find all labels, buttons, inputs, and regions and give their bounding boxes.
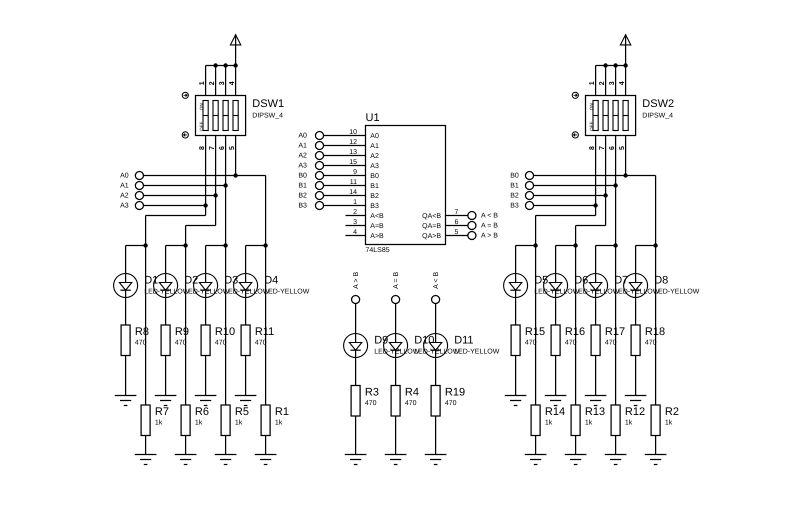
value 470 (R9) [175,340,187,347]
wire [125,246,127,274]
wire U1 pin 15 [324,165,366,167]
wire net B2 jog [576,225,606,227]
resistor R10 [201,325,210,356]
svg-text:R9: R9 [175,326,189,338]
pin number 5 (U1) [455,229,459,236]
label D2 [184,275,198,287]
value 470 (R3) [365,400,377,407]
wire [395,303,397,333]
svg-text:D4: D4 [264,275,278,287]
value LED-YELLOW (D7) [614,288,660,295]
svg-text:R4: R4 [405,387,419,399]
svg-text:QA>B: QA>B [422,233,441,240]
wire [515,246,517,274]
value 470 (R8) [135,340,147,347]
label R1 [275,406,289,418]
wire [635,246,637,274]
label D10 [414,335,434,347]
label R11 [255,326,274,338]
terminal A0 (U1 input) [298,131,323,139]
ground [135,455,157,465]
svg-text:5: 5 [619,146,626,150]
label R3 [365,387,379,399]
svg-text:ON: ON [589,103,594,110]
LED D7 [584,274,608,298]
terminal A3 (U1 input) [298,161,323,169]
wire [165,356,167,396]
wire [515,298,517,326]
svg-text:2: 2 [209,81,216,85]
ground [505,396,527,406]
wire net A3 drop [145,216,147,246]
label D9 [374,335,388,347]
wire [435,416,437,455]
terminal B0 [510,171,533,179]
svg-text:A < B: A < B [481,213,498,220]
svg-text:3: 3 [609,81,616,85]
wire net A3 jog [146,215,206,217]
svg-text:LED-YELLOW: LED-YELLOW [654,288,700,295]
wire [205,298,207,326]
value LED-YELLOW (D1) [144,288,190,295]
ground [345,455,367,465]
terminal A < B (output) [468,211,498,219]
pin name QA>B (U1) [422,233,441,240]
terminal A1 [120,181,143,189]
value LED-YELLOW (D11) [454,348,500,355]
svg-text:470: 470 [445,400,457,407]
DIP switch DSW1 [196,96,246,136]
svg-text:6: 6 [609,146,616,150]
wire [206,245,226,247]
svg-text:A0: A0 [120,173,129,180]
ground [255,455,277,465]
svg-text:B2: B2 [298,193,307,200]
terminal B3 [510,201,533,209]
svg-text:470: 470 [645,340,657,347]
pin number 2 (DSW1) [209,81,216,85]
wire U1 pin 12 [324,145,366,147]
svg-text:B1: B1 [510,183,519,190]
value 1k (R12) [625,419,633,427]
wire net A0 [143,175,265,177]
svg-text:8: 8 [199,146,206,150]
pin name A0 (U1) [370,133,379,140]
junction [263,243,267,247]
ground [565,455,587,465]
pin name A>B (U1) [370,233,384,240]
wire U1 pin 3 stub [346,225,366,227]
svg-text:1k: 1k [275,419,283,427]
svg-text:QA=B: QA=B [422,223,441,230]
power terminal VCC (DSW2) [620,34,630,65]
label D4 [264,275,278,287]
wire [206,65,236,67]
svg-text:B0: B0 [370,173,379,180]
pin number 2 (U1) [353,209,357,216]
pin name A3 (U1) [370,163,379,170]
junction [213,63,217,67]
label R12 [625,406,645,418]
resistor R11 [241,325,250,356]
value 470 (R19) [445,400,457,407]
label D5 [534,275,548,287]
wire [595,298,597,326]
pin name B1 (U1) [370,183,379,190]
ground [155,396,177,406]
svg-text:R1: R1 [275,406,289,418]
svg-text:A1: A1 [120,183,129,190]
wire [575,246,577,406]
wire [625,66,627,96]
svg-text:470: 470 [405,400,417,407]
IC U1 body [366,126,446,245]
wire [125,298,127,326]
svg-text:8: 8 [589,146,596,150]
wire U1 pin 10 [324,135,366,137]
wire [125,356,127,396]
svg-text:B3: B3 [370,203,379,210]
svg-text:A3: A3 [298,163,307,170]
wire DIP pin 7 column [215,136,217,226]
svg-text:D7: D7 [614,275,628,287]
pin number 8 (DSW2) [589,146,596,150]
wire [205,66,207,96]
wire [265,436,267,455]
terminal A > B (output) [468,231,498,239]
svg-text:1k: 1k [665,419,673,427]
wire net B3 drop [535,216,537,246]
ground [425,455,447,465]
terminal B3 (U1 input) [298,201,323,209]
pin name A1 (U1) [370,143,379,150]
ground [385,455,407,465]
pin number 13 (U1) [349,149,357,156]
terminal A2 [120,191,143,199]
svg-text:ON: ON [199,103,204,110]
wire [516,245,536,247]
ground [525,455,547,465]
svg-text:14: 14 [349,189,357,196]
terminal B2 (U1 input) [298,191,323,199]
value LED-YELLOW (D5) [534,288,580,295]
terminal A0 [120,171,143,179]
svg-text:A2: A2 [370,153,379,160]
svg-text:A > B: A > B [353,272,360,289]
svg-text:B1: B1 [370,183,379,190]
svg-text:D6: D6 [574,275,588,287]
junction B2 [603,193,607,197]
wire net A2 drop [185,226,187,246]
wire [395,358,397,386]
svg-text:A < B: A < B [433,272,440,289]
wire net A0 drop [265,176,267,246]
svg-text:A = B: A = B [481,223,498,230]
wire [435,358,437,386]
wire [575,436,577,455]
LED D6 [544,274,568,298]
wire [245,356,247,396]
value 1k (R6) [195,419,203,427]
svg-text:1k: 1k [155,419,163,427]
value 1k (R2) [665,419,673,427]
value 1k (R7) [155,419,163,427]
value 1k (R14) [545,419,553,427]
svg-text:1k: 1k [585,419,593,427]
svg-text:470: 470 [605,340,617,347]
wire U1 pin 11 [324,185,366,187]
svg-text:7: 7 [455,209,459,216]
svg-text:15: 15 [349,159,357,166]
svg-text:A0: A0 [298,133,307,140]
ground [605,455,627,465]
svg-text:3: 3 [353,219,357,226]
label R10 [215,326,235,338]
wire [165,298,167,326]
junction [623,63,627,67]
ground [645,455,667,465]
value 1k (R1) [275,419,283,427]
junction [613,243,617,247]
wire [126,245,146,247]
pin name QA=B (U1) [422,223,441,230]
pin number 4 (DSW1) [229,81,236,85]
label R15 [525,326,545,338]
pin number 8 (DSW1) [199,146,206,150]
svg-text:470: 470 [175,340,187,347]
label R14 [545,406,565,418]
wire [245,298,247,326]
wire [265,246,267,406]
svg-text:A > B: A > B [481,233,498,240]
resistor R3 [351,386,360,417]
svg-text:5: 5 [455,229,459,236]
pin number 3 (DSW1) [219,81,226,85]
svg-text:1k: 1k [235,419,243,427]
label R19 [445,387,465,399]
svg-text:74LS85: 74LS85 [366,247,390,254]
svg-text:DIPSW_4: DIPSW_4 [642,113,673,120]
svg-text:12: 12 [349,139,357,146]
junction A3 [203,203,207,207]
LED D11 [424,334,448,358]
svg-text:U1: U1 [366,112,380,124]
svg-text:4: 4 [353,229,357,236]
LED D2 [154,274,178,298]
terminal A3 [120,201,143,209]
wire [215,66,217,96]
wire [636,245,656,247]
svg-text:4: 4 [229,81,236,85]
value 470 (R15) [525,340,537,347]
wire net B2 [534,195,606,197]
terminal A1 (U1 input) [298,141,323,149]
wire net A3 [143,205,205,207]
junction B0 [623,173,627,177]
pin number 1 (DSW2) [589,81,596,85]
wire DIP pin 7 column [605,136,607,226]
wire [595,66,597,96]
wire DIP pin 6 column [225,136,227,246]
junction [653,243,657,247]
resistor R14 [531,405,540,436]
svg-text:LED-YELLOW: LED-YELLOW [264,288,310,295]
wire net B0 [534,175,656,177]
wire [605,66,607,96]
svg-text:2: 2 [353,209,357,216]
wire U1 pin 5 [446,235,469,237]
svg-text:A1: A1 [298,143,307,150]
value 1k (R5) [235,419,243,427]
wire [615,246,617,406]
pin number 9 (U1) [353,169,357,176]
svg-text:D11: D11 [454,335,473,347]
value 470 (R18) [645,340,657,347]
pin number 6 (DSW2) [609,146,616,150]
wire [535,436,537,455]
wire U1 pin 9 [324,175,366,177]
wire net A2 jog [186,225,216,227]
value 470 (R17) [605,340,617,347]
wire net B3 jog [536,215,596,217]
resistor R19 [431,386,440,417]
junction [613,63,617,67]
svg-text:R11: R11 [255,326,274,338]
resistor R12 [611,405,620,436]
junction [143,243,147,247]
label R2 [665,406,679,418]
svg-text:A3: A3 [120,203,129,210]
label D7 [614,275,628,287]
value DIPSW_4 (DSW2) [642,113,673,120]
terminal A2 (U1 input) [298,151,323,159]
pin name A2 (U1) [370,153,379,160]
ground [235,396,257,406]
wire [185,436,187,455]
pin number 4 (U1) [353,229,357,236]
svg-text:R6: R6 [195,406,209,418]
svg-text:OFF: OFF [199,121,204,130]
wire net B1 [534,185,616,187]
pin number 6 (DSW1) [219,146,226,150]
svg-text:DSW2: DSW2 [642,98,674,110]
wire [235,66,237,96]
terminal A = B [392,272,401,304]
wire [225,246,227,406]
pin number 15 (U1) [349,159,357,166]
pin number 14 (U1) [349,189,357,196]
pin name QA<B (U1) [422,213,441,220]
wire [635,356,637,396]
svg-text:R8: R8 [135,326,149,338]
pin number 3 (U1) [353,219,357,226]
wire [655,436,657,455]
wire [145,436,147,455]
pin number 7 (DSW1) [209,146,216,150]
ground [585,396,607,406]
svg-text:A>B: A>B [370,233,384,240]
wire [435,303,437,333]
value LED-YELLOW (D8) [654,288,700,295]
ground [195,396,217,406]
value LED-YELLOW (D9) [374,348,420,355]
svg-text:R2: R2 [665,406,679,418]
resistor R13 [571,405,580,436]
svg-text:7: 7 [209,146,216,150]
svg-text:470: 470 [255,340,267,347]
svg-text:11: 11 [350,179,357,186]
terminal B1 (U1 input) [298,181,323,189]
svg-text:1: 1 [589,81,596,85]
pin number 7 (U1) [455,209,459,216]
resistor R7 [141,405,150,436]
svg-text:6: 6 [455,219,459,226]
wire [145,246,147,406]
wire U1 pin 14 [324,195,366,197]
value 470 (R4) [405,400,417,407]
svg-text:3: 3 [219,81,226,85]
svg-text:R5: R5 [235,406,249,418]
wire U1 pin 1 [324,205,366,207]
junction A0 [233,173,237,177]
pin name B0 (U1) [370,173,379,180]
pin number 6 (U1) [455,219,459,226]
wire [245,246,247,274]
resistor R9 [161,325,170,356]
resistor R2 [651,405,660,436]
label R9 [175,326,189,338]
wire DIP pin 5 column [625,136,627,176]
wire [355,358,357,386]
svg-text:13: 13 [349,149,357,156]
svg-text:R3: R3 [365,387,379,399]
label D3 [224,275,238,287]
ground [175,455,197,465]
svg-text:R12: R12 [625,406,645,418]
wire U1 pin 2 stub [346,215,366,217]
label R17 [605,326,625,338]
LED D5 [504,274,528,298]
label DSW1 [252,98,284,110]
pin number 7 (DSW2) [599,146,606,150]
svg-text:LED-YELLOW: LED-YELLOW [454,348,500,355]
svg-text:QA<B: QA<B [422,213,441,220]
LED D10 [384,334,408,358]
LED D3 [194,274,218,298]
label R16 [565,326,585,338]
terminal B2 [510,191,533,199]
wire [355,416,357,455]
junction [223,63,227,67]
terminal B0 (U1 input) [298,171,323,179]
wire [246,245,266,247]
wire net A2 [143,195,215,197]
wire [555,298,557,326]
wire U1 pin 4 stub [346,235,366,237]
ground [215,455,237,465]
resistor R6 [181,405,190,436]
svg-text:B0: B0 [510,173,519,180]
wire [185,246,187,406]
svg-text:10: 10 [349,129,357,136]
pin number 12 (U1) [349,139,357,146]
value 1k (R13) [585,419,593,427]
pin number 1 (DSW1) [199,81,206,85]
pin number 5 (DSW1) [229,146,236,150]
label D11 [454,335,473,347]
wire DIP pin 6 column [615,136,617,246]
svg-text:1k: 1k [195,419,203,427]
